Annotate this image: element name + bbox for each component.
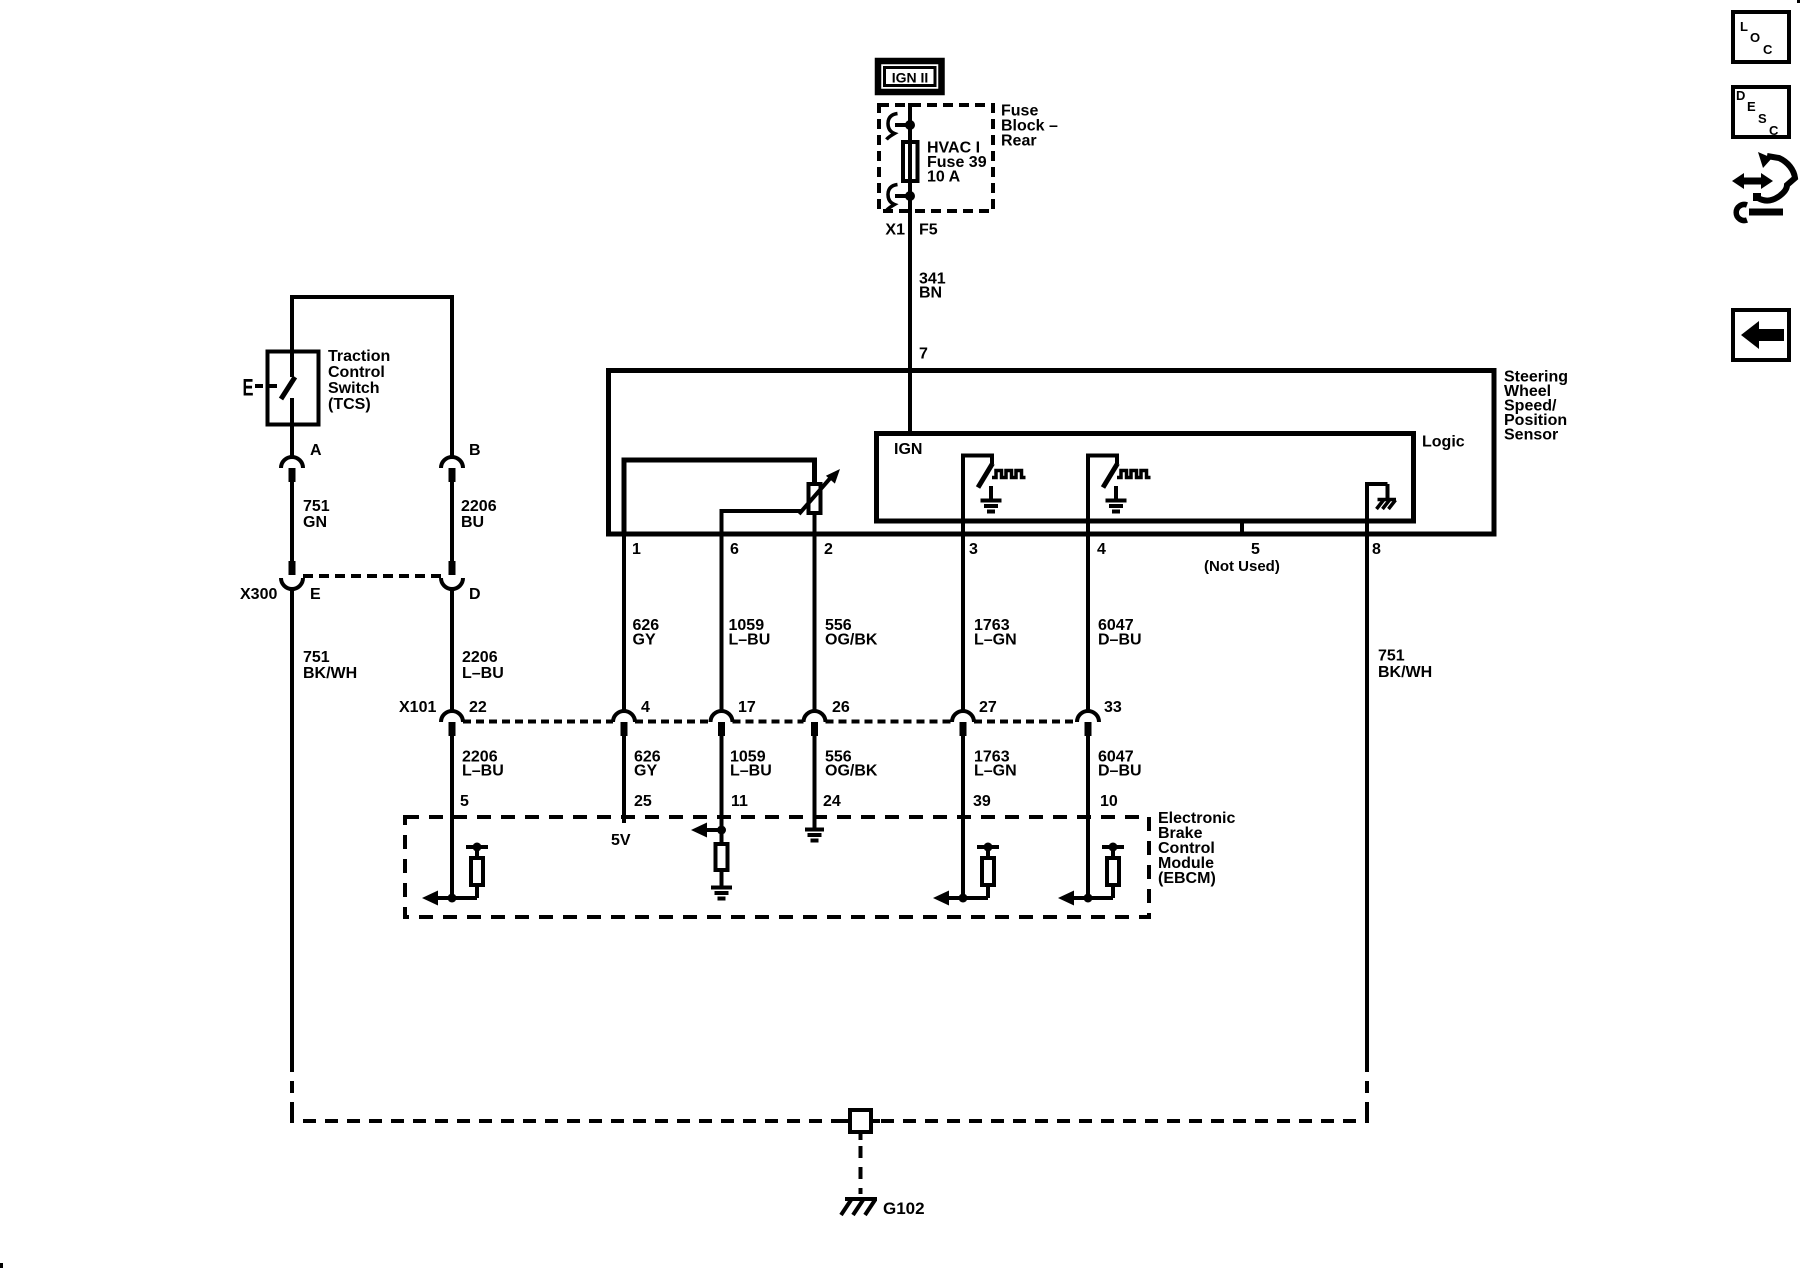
- svg-text:D: D: [1736, 88, 1745, 103]
- svg-text:751: 751: [303, 649, 330, 666]
- EBCM pin 5 input: wire, node, arrow, resistor R: [422, 815, 477, 906]
- DESC hotlink box: [1733, 87, 1789, 138]
- svg-text:25: 25: [634, 793, 652, 810]
- pin 6 wiper wire: [722, 511, 802, 535]
- fuse HVAC I Fuse 39 10 A: [903, 142, 918, 181]
- page corner marks: [0, 1263, 3, 1268]
- logic inner box: [877, 434, 1414, 522]
- resistor (pin 10): [1102, 843, 1124, 899]
- fuse clip bottom: [887, 185, 916, 211]
- svg-text:X1: X1: [885, 222, 905, 239]
- wire 556 OG/BK (cav 26 to pin 24): [813, 736, 817, 815]
- pulse symbol 1: [992, 471, 1026, 478]
- svg-text:O: O: [1750, 30, 1760, 45]
- power source box IGN II: [878, 61, 942, 92]
- wire 1059 L-BU (pin 6): [720, 535, 724, 711]
- wire 1763 L-GN (cav 27 to pin 39): [961, 736, 965, 815]
- svg-text:B: B: [469, 442, 481, 459]
- connector cavity 22: [441, 699, 487, 736]
- pulse symbol 2: [1117, 471, 1151, 478]
- svg-text:F5: F5: [919, 222, 938, 239]
- wire 626 GY (cav 4 to pin 25): [622, 736, 626, 815]
- svg-text:751: 751: [303, 498, 330, 515]
- connector cavity 33: [1077, 699, 1122, 736]
- svg-text:G102: G102: [883, 1199, 925, 1218]
- ground G102: [841, 1199, 925, 1218]
- svg-text:751: 751: [1378, 648, 1405, 665]
- svg-text:L–BU: L–BU: [462, 665, 504, 682]
- connector cavity 17: [711, 699, 756, 736]
- svg-text:IGN II: IGN II: [892, 70, 929, 86]
- back arrow box: [1733, 310, 1789, 360]
- splice S102 box: [841, 1110, 880, 1140]
- svg-text:L–GN: L–GN: [974, 763, 1017, 780]
- svg-text:D–BU: D–BU: [1098, 763, 1142, 780]
- ground (pin 11): [711, 888, 732, 899]
- svg-text:L–BU: L–BU: [729, 632, 771, 649]
- svg-text:5: 5: [460, 793, 469, 810]
- svg-text:Traction: Traction: [328, 348, 390, 365]
- EBCM dashed box: [405, 817, 1149, 917]
- svg-text:33: 33: [1104, 699, 1122, 716]
- LOC hotlink box: [1733, 12, 1789, 62]
- svg-text:X300: X300: [240, 586, 277, 603]
- chassis ground (logic): [1377, 500, 1397, 510]
- svg-text:4: 4: [1097, 541, 1106, 558]
- svg-text:(Not Used): (Not Used): [1204, 558, 1280, 575]
- wire 2206 L-BU (cav 22 to pin 5): [450, 736, 454, 815]
- EBCM pin 11 input: arrow, resistor, ground: [691, 815, 726, 844]
- svg-text:GN: GN: [303, 514, 327, 531]
- wire dashed drop to ground: [859, 1146, 863, 1194]
- resistor (pin 5): [466, 843, 488, 899]
- potentiometer loop: pin 1 wire: [624, 460, 815, 535]
- wire dashed segment right: [1365, 1060, 1369, 1115]
- wire from TCS to pin A: [290, 426, 294, 457]
- svg-text:10 A: 10 A: [927, 169, 961, 186]
- svg-text:OG/BK: OG/BK: [825, 632, 878, 649]
- connector cavity 26: [804, 699, 850, 736]
- wire 751 BK/WH (pin 8): [1365, 535, 1369, 1060]
- X300 dashed line: [303, 574, 441, 578]
- pin 5 stub (not used): [1240, 521, 1244, 535]
- svg-text:6: 6: [730, 541, 739, 558]
- svg-text:D: D: [469, 586, 481, 603]
- svg-text:E: E: [243, 375, 254, 402]
- svg-text:BN: BN: [919, 285, 942, 302]
- fuse clip top: [887, 114, 916, 140]
- switch 2 (pin 4): [1088, 456, 1118, 536]
- svg-text:3: 3: [969, 541, 978, 558]
- diagnostic tools icon: [1732, 152, 1795, 221]
- sensor outer box: [609, 371, 1495, 535]
- connector pin E: [281, 561, 321, 603]
- svg-text:L–GN: L–GN: [974, 632, 1017, 649]
- svg-text:Rear: Rear: [1001, 133, 1037, 150]
- wire 2206 BU: [450, 482, 454, 561]
- EBCM pin 24 input: ground: [813, 815, 817, 828]
- wire 2206 L-BU: [450, 589, 454, 711]
- EBCM pin 39 input: wire, node, arrow, resistor R: [933, 815, 988, 906]
- wire 556 OG/BK (pin 2): [813, 535, 817, 711]
- switch 1 (pin 3): [963, 456, 993, 536]
- connector cavity 27: [952, 699, 997, 736]
- wire dashed bottom right run: [873, 1110, 1367, 1121]
- svg-text:1: 1: [632, 541, 641, 558]
- svg-text:2206: 2206: [461, 498, 497, 515]
- svg-text:BK/WH: BK/WH: [303, 665, 357, 682]
- svg-text:E: E: [1747, 99, 1756, 114]
- svg-text:24: 24: [823, 793, 841, 810]
- svg-text:L–BU: L–BU: [730, 763, 772, 780]
- resistor (pin 11): [716, 844, 728, 870]
- wire 751 BK/WH (left): [290, 589, 294, 1060]
- wire dashed segment left: [290, 1060, 294, 1115]
- svg-text:(EBCM): (EBCM): [1158, 870, 1216, 887]
- connector pin D: [441, 561, 481, 603]
- svg-text:GY: GY: [633, 632, 656, 649]
- svg-text:X101: X101: [399, 699, 436, 716]
- svg-text:A: A: [310, 442, 322, 459]
- svg-text:BU: BU: [461, 514, 484, 531]
- svg-text:26: 26: [832, 699, 850, 716]
- wire dashed bottom left run: [292, 1110, 848, 1121]
- svg-text:Control: Control: [328, 364, 385, 381]
- ground (switch 1): [981, 486, 1002, 512]
- X101 dashed line segments: [463, 720, 613, 724]
- connector pin B: [441, 442, 481, 482]
- wire 1059 L-BU (cav 17 to pin 11): [720, 736, 724, 815]
- svg-text:8: 8: [1372, 541, 1381, 558]
- svg-text:L–BU: L–BU: [462, 763, 504, 780]
- connector pin A: [281, 442, 322, 482]
- svg-text:S: S: [1758, 111, 1767, 126]
- potentiometer R (variable resistor): [809, 484, 821, 513]
- svg-text:5: 5: [1251, 541, 1260, 558]
- svg-text:(TCS): (TCS): [328, 396, 371, 413]
- svg-text:7: 7: [919, 346, 928, 363]
- svg-text:GY: GY: [634, 763, 657, 780]
- svg-text:Logic: Logic: [1422, 434, 1465, 451]
- traction control switch box: [268, 352, 319, 425]
- wire 626 GY (pin 1): [622, 535, 626, 711]
- EBCM pin 10 input: wire, node, arrow, resistor R: [1058, 815, 1113, 906]
- svg-text:C: C: [1769, 123, 1779, 138]
- svg-text:D–BU: D–BU: [1098, 632, 1142, 649]
- svg-text:39: 39: [973, 793, 991, 810]
- svg-text:Sensor: Sensor: [1504, 427, 1558, 444]
- connector cavity 4: [613, 699, 650, 736]
- wire 1763 L-GN (pin 3): [961, 535, 965, 711]
- svg-text:2: 2: [824, 541, 833, 558]
- wire loop from TCS to B: [292, 297, 452, 457]
- svg-text:BK/WH: BK/WH: [1378, 664, 1432, 681]
- svg-text:C: C: [1763, 42, 1773, 57]
- svg-text:IGN: IGN: [894, 441, 922, 458]
- svg-text:E: E: [310, 586, 321, 603]
- EBCM pin 25 stub: 5V reference: [622, 815, 626, 823]
- pin 8 internal wire: [1367, 484, 1388, 535]
- resistor (pin 39): [977, 843, 999, 899]
- svg-text:OG/BK: OG/BK: [825, 763, 878, 780]
- switch contacts and blade: [281, 351, 295, 426]
- svg-text:4: 4: [641, 699, 650, 716]
- wire through fuse block (341 circuit): [908, 103, 912, 433]
- svg-text:L: L: [1740, 19, 1748, 34]
- wiper arrow: [799, 475, 833, 514]
- fuse block - rear dashed box: [879, 105, 993, 211]
- svg-text:22: 22: [469, 699, 487, 716]
- ground (switch 2): [1106, 486, 1127, 512]
- svg-text:11: 11: [731, 793, 748, 810]
- svg-text:Switch: Switch: [328, 380, 380, 397]
- svg-text:2206: 2206: [462, 649, 498, 666]
- svg-text:5V: 5V: [611, 832, 631, 849]
- wire 6047 D-BU (pin 4): [1086, 535, 1090, 711]
- wire 6047 D-BU (cav 33 to pin 10): [1086, 736, 1090, 815]
- svg-text:10: 10: [1100, 793, 1118, 810]
- svg-text:17: 17: [738, 699, 756, 716]
- svg-text:27: 27: [979, 699, 997, 716]
- wire 751 GN: [290, 482, 294, 561]
